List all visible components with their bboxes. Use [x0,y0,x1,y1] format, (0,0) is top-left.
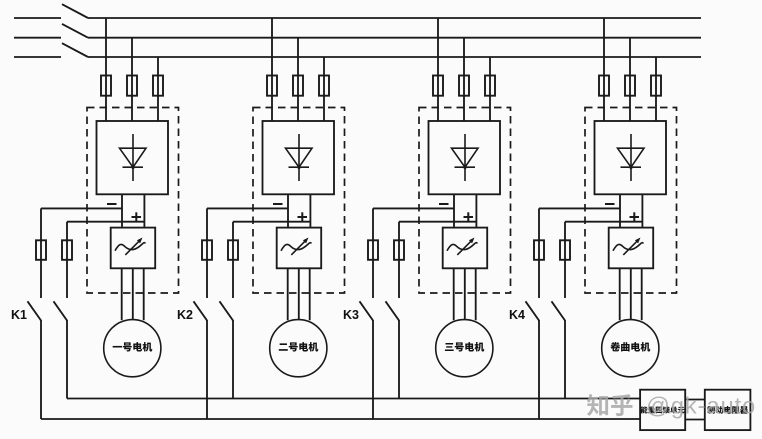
wire: drop from L1 to rectifier U4 input a [603,18,605,121]
wire: phase bus L3 right segment [88,56,701,58]
wire: VF4 output phase 1 to motor M4 [619,268,621,320]
dashed enclosure: drive unit 4 [585,108,677,294]
fuse FU4b [625,76,635,96]
wire: K3 pole 1 to lower DC bus [372,320,374,419]
motor M3 circle [436,320,493,377]
fuse FU1c [153,76,163,96]
motor M2 circle [270,320,327,377]
wire: DC+ tap from unit 1 to common bus branch [67,221,144,223]
wire: drop from L3 to rectifier U1 input c [157,57,159,121]
wire: drop from L3 to rectifier U4 input c [655,57,657,121]
label: motor M2 name 二号电机 [279,343,288,350]
contactor K2 pole 1 blade [194,301,208,320]
rectifier U4 box [595,121,667,194]
wire: DC+ tap from unit 3 to common bus branch [399,221,476,223]
label: DC plus polarity (unit 3) [464,212,474,221]
contactor K4 pole 1 blade [526,301,540,320]
wire: common DC bus lower (-) [41,418,640,420]
svg-text:K4: K4 [509,308,525,322]
svg-text:K1: K1 [11,308,27,322]
fuse FU1a [101,76,111,96]
wire: U1 DC+ output stub [143,194,145,227]
contactor K3 pole 2 blade [386,301,400,320]
contactor K1 pole 2 blade [54,301,68,320]
wire: VF2 output phase 1 to motor M2 [287,268,289,320]
wire: DC- tap from unit 2 to common bus branch [207,207,288,209]
inverter VF4 variable-frequency symbol [613,238,643,255]
wire: drop from L3 to rectifier U2 input c [323,57,325,121]
disconnect switch blade QS phase L3 [62,43,88,57]
fuse FU1b [127,76,137,96]
rectifier U2 diode symbol [286,134,313,181]
fuse FU2c [319,76,329,96]
inverter VF2 variable-frequency symbol [281,238,311,255]
fuse F2+ (DC plus branch) [228,240,238,259]
wire: DC+ branch vertical to contactor K1 (unit 1) [66,260,68,298]
wire: DC+ branch vertical to contactor K3 (unit 3) [398,260,400,298]
svg-text:@gk-auto: @gk-auto [646,393,756,419]
wire: phase bus L2 left segment [14,37,61,39]
wire: drop from L1 to rectifier U1 input a [105,18,107,121]
svg-text:K2: K2 [177,308,193,322]
label: DC plus polarity (unit 1) [132,212,142,221]
wire: K2 pole 1 to lower DC bus [206,320,208,419]
wire: K2 pole 2 to upper DC bus [232,320,234,399]
rectifier U4 diode symbol [618,134,645,181]
wire: U4 DC+ output stub [641,194,643,227]
wire: phase bus L3 left segment [14,56,61,58]
label: DC plus polarity (unit 4) [630,212,640,221]
fuse F3- (DC minus branch) [368,240,378,259]
braking resistor box (制动电阻器) [705,390,751,430]
wire: phase bus L2 right segment [88,37,701,39]
wire: DC- branch vertical upper (unit 3) [372,208,374,240]
fuse FU3a [433,76,443,96]
rectifier U3 box [429,121,501,194]
wire: DC+ branch vertical upper (unit 3) [398,222,400,241]
wire: K1 pole 1 to lower DC bus [40,320,42,419]
wire: common DC bus upper (+) [67,398,640,400]
wire: drop from L1 to rectifier U3 input a [437,18,439,121]
rectifier U1 box [97,121,169,194]
wire: K1 pole 2 to upper DC bus [66,320,68,399]
fuse F1- (DC minus branch) [36,240,46,259]
wire: VF1 output phase 3 to motor M1 [143,268,145,320]
wire: VF4 output phase 2 to motor M4 [630,268,632,320]
inverter VF1 box [111,228,156,269]
wire: VF3 output phase 3 to motor M3 [475,268,477,320]
wire: DC- branch vertical to contactor K2 (unit 2) [206,260,208,298]
wire: DC+ branch vertical to contactor K4 (unit 4) [564,260,566,298]
wire: U3 DC- output stub [453,194,455,227]
wire: DC+ branch vertical to contactor K2 (unit 2) [232,260,234,298]
fuse F3+ (DC plus branch) [394,240,404,259]
label: motor M1 name 一号电机 [113,346,122,348]
wire: braking unit to resistor upper link [685,399,705,401]
wire: phase bus L1 left segment [14,17,61,19]
wire: U1 DC- output stub [121,194,123,227]
label: braking unit text [641,406,648,413]
label: DC minus polarity (unit 2) [273,203,283,205]
wire: VF4 output phase 3 to motor M4 [641,268,643,320]
label: motor M4 name 卷曲电机 [611,342,621,351]
inverter VF4 box [609,228,654,269]
inverter VF3 box [443,228,488,269]
contactor K2 pole 2 blade [220,301,234,320]
watermark: 知乎 @gk-auto [587,393,756,419]
svg-text:K3: K3 [343,308,359,322]
contactor K4 pole 2 blade [552,301,566,320]
wire: drop from L3 to rectifier U3 input c [489,57,491,121]
disconnect switch blade QS phase L2 [62,24,88,38]
label: braking resistor text [707,406,715,414]
fuse F4- (DC minus branch) [534,240,544,259]
label: DC minus polarity (unit 1) [107,203,117,205]
wire: U3 DC+ output stub [475,194,477,227]
wire: VF2 output phase 2 to motor M2 [298,268,300,320]
wire: U4 DC- output stub [619,194,621,227]
braking unit box (能量回馈单元) [640,390,685,430]
inverter VF3 variable-frequency symbol [447,238,477,255]
wire: K4 pole 2 to upper DC bus [564,320,566,399]
wire: VF2 output phase 3 to motor M2 [309,268,311,320]
label: DC minus polarity (unit 4) [605,203,615,205]
wire: drop from L2 to rectifier U2 input b [297,38,299,121]
fuse F2- (DC minus branch) [202,240,212,259]
wire: DC+ branch vertical upper (unit 4) [564,222,566,241]
fuse FU3c [485,76,495,96]
wire: drop from L2 to rectifier U1 input b [131,38,133,121]
fuse F4+ (DC plus branch) [560,240,570,259]
wire: drop from L2 to rectifier U3 input b [463,38,465,121]
wire: braking unit to resistor lower link [685,419,705,421]
rectifier U3 diode symbol [452,134,479,181]
rectifier U1 diode symbol [120,134,147,181]
inverter VF1 variable-frequency symbol [115,238,145,255]
wire: DC+ tap from unit 4 to common bus branch [565,221,642,223]
wire: DC- branch vertical to contactor K3 (unit 3) [372,260,374,298]
wire: DC- branch vertical upper (unit 1) [40,208,42,240]
inverter VF2 box [277,228,322,269]
label: motor M3 name 三号电机 [445,343,454,351]
wire: phase bus L1 right segment [88,17,701,19]
wire: VF1 output phase 1 to motor M1 [121,268,123,320]
dashed enclosure: drive unit 1 [87,108,179,294]
fuse FU2a [267,76,277,96]
wire: K3 pole 2 to upper DC bus [398,320,400,399]
fuse FU4a [599,76,609,96]
fuse FU3b [459,76,469,96]
fuse FU2b [293,76,303,96]
wire: VF3 output phase 2 to motor M3 [464,268,466,320]
rectifier U2 box [263,121,335,194]
wire: DC- branch vertical to contactor K4 (unit 4) [538,260,540,298]
fuse F1+ (DC plus branch) [62,240,72,259]
label: DC minus polarity (unit 3) [439,203,449,205]
wire: DC+ branch vertical upper (unit 2) [232,222,234,241]
fuse FU4c [651,76,661,96]
disconnect switch blade QS phase L1 [62,4,88,18]
motor M1 circle [104,320,161,377]
wire: U2 DC- output stub [287,194,289,227]
wire: DC+ tap from unit 2 to common bus branch [233,221,310,223]
wire: DC- branch vertical to contactor K1 (unit 1) [40,260,42,298]
wire: VF3 output phase 1 to motor M3 [453,268,455,320]
wire: K4 pole 1 to lower DC bus [538,320,540,419]
dashed enclosure: drive unit 3 [419,108,511,294]
wire: DC- tap from unit 3 to common bus branch [373,207,454,209]
contactor K3 pole 1 blade [360,301,374,320]
wire: DC- branch vertical upper (unit 4) [538,208,540,240]
dashed enclosure: drive unit 2 [253,108,345,294]
wire: drop from L2 to rectifier U4 input b [629,38,631,121]
label: DC plus polarity (unit 2) [298,212,308,221]
wire: DC- tap from unit 4 to common bus branch [539,207,620,209]
wire: U2 DC+ output stub [309,194,311,227]
wire: DC+ branch vertical upper (unit 1) [66,222,68,241]
wire: DC- tap from unit 1 to common bus branch [41,207,122,209]
wire: DC- branch vertical upper (unit 2) [206,208,208,240]
motor M4 circle [602,320,659,377]
wire: VF1 output phase 2 to motor M1 [132,268,134,320]
wire: drop from L1 to rectifier U2 input a [271,18,273,121]
contactor K1 pole 1 blade [28,301,42,320]
